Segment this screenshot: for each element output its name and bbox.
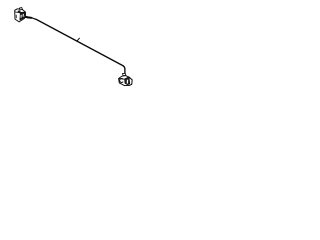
wire: thicker boot at J1 exit — [25, 16, 31, 19]
J1 top face lower edge — [15, 11, 26, 14]
wire: main cable from connector J1 to connector J2 — [25, 17, 125, 74]
J2 strain-relief nub on top — [123, 73, 126, 76]
J2 front face C-shaped opening — [120, 78, 124, 82]
J1 right face slot 2 — [22, 14, 24, 17]
J2 top face lower edge — [119, 77, 129, 79]
J2 right face white slot — [126, 80, 128, 84]
J1 body silhouette — [15, 9, 26, 22]
J1 right face slot 1 — [20, 15, 22, 18]
J1 front face slit — [15, 15, 17, 18]
background — [0, 0, 150, 97]
wire: small strand tick on cable — [77, 38, 79, 41]
connector J1 (top-left plug) — [15, 8, 26, 22]
connector J2 (bottom-right plug) — [119, 73, 133, 85]
J1 center dark marking — [18, 10, 21, 13]
J2 dark front-right face — [125, 77, 130, 85]
J1 latch tab on top — [19, 8, 22, 10]
J1 dark right face — [20, 12, 26, 20]
J2 right rim outline — [129, 77, 132, 85]
J2 body silhouette — [119, 76, 133, 86]
